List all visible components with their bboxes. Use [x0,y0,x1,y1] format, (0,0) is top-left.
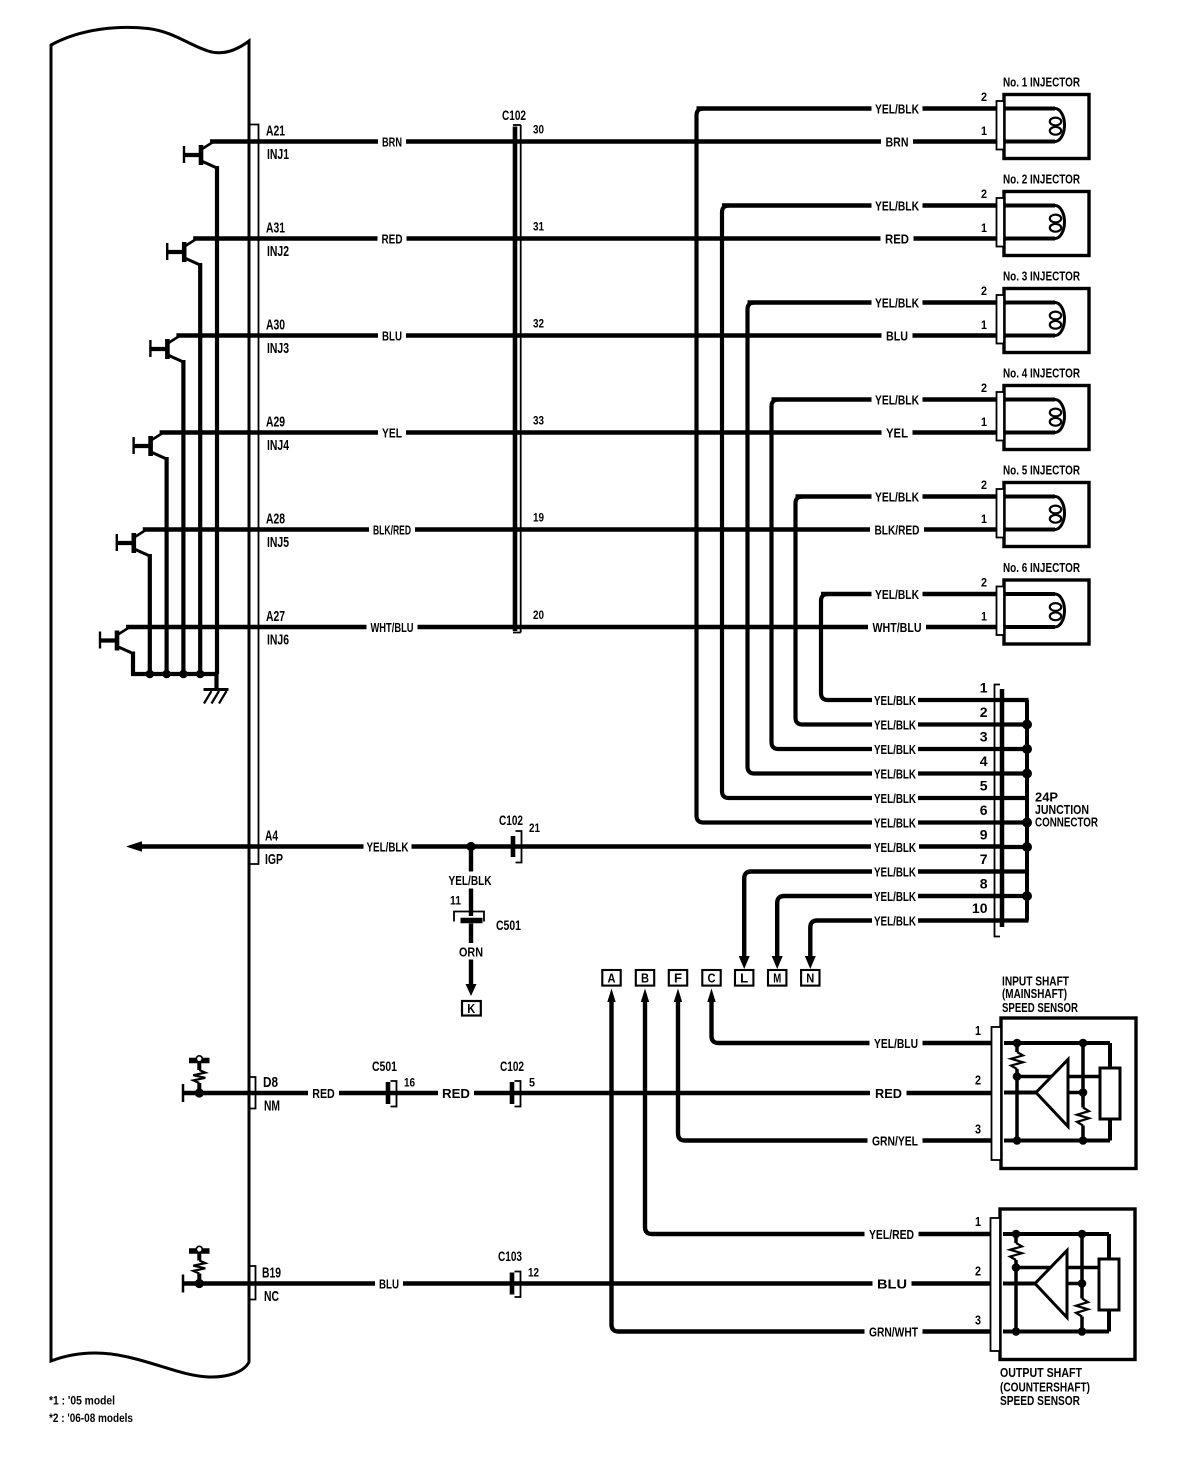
svg-text:N: N [806,971,814,986]
svg-text:A4: A4 [265,827,278,844]
svg-text:BRN: BRN [886,134,909,149]
svg-text:L: L [740,971,748,986]
connector C102 pin 5 [512,1081,521,1107]
terminal K box [462,1001,481,1016]
wire BRN (A21 to No.1 injector pin 1) [210,139,1006,143]
injector No.2 pin numbers [981,187,987,235]
svg-text:YEL/BLK: YEL/BLK [875,198,919,213]
svg-text:GRN/YEL: GRN/YEL [872,1133,918,1148]
svg-text:WHT/BLU: WHT/BLU [371,620,414,635]
pin A4/IGP labels [265,827,283,868]
label C102 / 21 [499,813,540,835]
svg-text:5: 5 [980,778,988,794]
svg-text:D8: D8 [263,1074,278,1091]
wire YEL/BLK vertical bus (injector 2 pin2 to junction row 5) [722,206,872,799]
injector No.1 box [1004,95,1089,159]
svg-text:1: 1 [981,318,987,332]
svg-text:INJ2: INJ2 [267,243,289,260]
svg-text:A27: A27 [266,608,285,625]
svg-text:RED: RED [442,1086,470,1101]
wire YEL/BLK vertical bus (injector 1 pin2 to junction row 6) [697,109,873,823]
pin A28/INJ5 labels [266,510,289,551]
wire YEL/BLK (junction bus to No.2 injector pin 2) [722,203,1006,207]
ECM connector A pin bracket [251,125,259,865]
terminal N box [801,970,819,986]
svg-text:3: 3 [975,1123,981,1137]
svg-text:20: 20 [533,608,544,622]
wire stub tick (NM) [182,1084,185,1102]
svg-text:IGP: IGP [265,851,283,868]
svg-text:RED: RED [312,1086,335,1101]
pin A29/INJ4 labels [266,413,289,454]
svg-text:INJ5: INJ5 [267,534,289,551]
label C102 / 5 [500,1059,535,1090]
output shaft speed sensor box [1000,1209,1135,1360]
injector No.4 box [1004,386,1089,450]
svg-text:RED: RED [875,1086,902,1101]
svg-text:M: M [773,971,781,986]
wire WHT/BLU (A27 to No.6 injector pin 1) [126,625,1006,629]
svg-text:1: 1 [980,680,988,696]
svg-text:1: 1 [981,512,987,526]
svg-text:YEL/BLK: YEL/BLK [875,489,919,504]
pin A31/INJ2 labels [266,219,289,260]
injector No.5 pin bracket [997,489,1005,538]
label 24P JUNCTION CONNECTOR [1035,789,1098,829]
svg-text:F: F [674,971,682,986]
svg-text:INJ4: INJ4 [267,437,289,454]
svg-text:C102: C102 [500,1059,524,1074]
svg-text:YEL/BLK: YEL/BLK [874,864,916,879]
svg-text:2: 2 [980,704,988,720]
svg-text:2: 2 [981,381,987,395]
svg-text:A30: A30 [266,316,285,333]
svg-text:9: 9 [980,827,988,843]
svg-text:A28: A28 [266,510,285,527]
svg-text:YEL: YEL [886,425,908,440]
svg-text:C: C [708,971,717,986]
transistor Q3 (INJ3 driver) [149,336,183,674]
wire YEL/BLK (junction row 8 to terminal M) [772,896,1001,969]
svg-text:*1 : '05 model: *1 : '05 model [49,1393,115,1407]
svg-text:YEL/BLK: YEL/BLK [874,889,916,904]
injector No.4 coil [1005,400,1065,433]
wire YEL/BLK (junction bus to No.5 injector pin 2) [796,494,1007,498]
wire YEL/BLK (junction row 10 to terminal N) [805,921,1001,970]
transistor Q5 (INJ5 driver) [116,530,150,674]
svg-text:No. 2 INJECTOR: No. 2 INJECTOR [1003,171,1080,186]
pin A30/INJ3 labels [266,316,289,357]
output shaft speed sensor internal junction dots [1012,1230,1087,1336]
svg-text:(MAINSHAFT): (MAINSHAFT) [1002,986,1067,1001]
svg-text:YEL/BLK: YEL/BLK [875,101,919,116]
svg-text:NC: NC [264,1288,279,1305]
wire YEL/BLK vertical bus (injector 6 pin2 to junction row 1) [821,594,872,700]
svg-text:YEL/BLK: YEL/BLK [449,873,492,888]
svg-text:K: K [467,1001,476,1016]
svg-text:INJ3: INJ3 [267,340,289,357]
svg-text:YEL/BLK: YEL/BLK [875,587,919,602]
wire BLU (A30 to No.3 injector pin 1) [176,333,1006,337]
svg-text:30: 30 [533,122,544,136]
wire YEL (A29 to No.4 injector pin 1) [160,430,1006,434]
svg-text:3: 3 [980,729,988,745]
svg-text:1: 1 [981,609,987,623]
svg-text:A: A [608,971,617,986]
connector C501 pin 11 [454,912,484,922]
connector C102 pin 21 (IGP) [513,831,522,863]
svg-text:YEL/BLK: YEL/BLK [367,839,409,854]
wire YEL/BLK vertical bus (injector 4 pin2 to junction row 3) [772,400,873,750]
svg-text:No. 3 INJECTOR: No. 3 INJECTOR [1003,268,1080,283]
injector No.6 coil [1005,594,1065,627]
wire GRN/YEL (terminal F to speed sensor) [678,1000,992,1141]
input shaft speed sensor internal circuit [1004,1043,1120,1141]
common emitter bus [131,672,217,676]
pin A27/INJ6 labels [266,608,289,649]
wire YEL/BLK (junction bus to No.1 injector pin 2) [697,106,1007,110]
svg-text:BLU: BLU [382,328,402,343]
24P junction connector bar [1000,689,1005,927]
injector No.2 coil [1005,206,1065,239]
svg-text:6: 6 [980,802,988,818]
svg-text:BLU: BLU [886,328,908,343]
wire ORN (C501 to terminal K) [469,924,473,986]
svg-text:B19: B19 [262,1264,281,1281]
output shaft speed sensor internal circuit [1003,1234,1119,1332]
output shaft speed sensor title [1000,1365,1090,1408]
svg-text:BLK/RED: BLK/RED [373,522,411,537]
arrow into terminal C [707,989,715,1003]
injector No.6 box [1004,580,1089,644]
svg-text:BRN: BRN [382,134,402,149]
pin A21/INJ1 labels [266,122,289,163]
svg-text:GRN/WHT: GRN/WHT [869,1324,918,1339]
input shaft speed sensor pin numbers [975,1024,981,1137]
svg-text:BLU: BLU [379,1276,399,1291]
injector No.6 pin bracket [997,587,1005,636]
svg-text:INJ1: INJ1 [267,146,289,163]
arrow into terminal A [607,989,615,1003]
svg-text:C501: C501 [496,918,521,933]
svg-text:OUTPUT SHAFT: OUTPUT SHAFT [1000,1365,1082,1380]
input shaft speed sensor internal junction dots [1013,1039,1088,1145]
svg-text:1: 1 [981,415,987,429]
svg-text:4: 4 [980,753,988,769]
wire YEL/BLK (branch down to C501 pin 11) [469,849,473,917]
terminal F box [669,970,687,986]
input shaft speed sensor box [1001,1018,1136,1169]
arrow into terminal B [641,989,649,1003]
svg-text:No. 5 INJECTOR: No. 5 INJECTOR [1003,462,1080,477]
svg-text:YEL/BLK: YEL/BLK [874,742,916,757]
svg-text:5: 5 [529,1075,535,1089]
svg-text:10: 10 [972,900,988,916]
svg-text:SPEED SENSOR: SPEED SENSOR [1000,1393,1080,1408]
ground [204,674,229,704]
svg-text:3: 3 [975,1314,981,1328]
junction dot (IGP branch to C501) [466,842,475,851]
injector No.4 pin bracket [997,392,1005,441]
svg-text:32: 32 [533,316,544,330]
connector C102 (main, pins 30-33,19,20) [513,125,521,633]
svg-text:RED: RED [885,231,909,246]
svg-text:2: 2 [981,478,987,492]
terminal A box [602,970,620,986]
svg-text:BLU: BLU [877,1276,907,1291]
svg-text:31: 31 [533,219,544,233]
svg-text:ORN: ORN [459,944,483,959]
svg-text:2: 2 [975,1265,981,1279]
svg-text:33: 33 [533,413,544,427]
ECM/PCM block outline (torn-edge box) [51,27,249,1377]
svg-text:A31: A31 [266,219,285,236]
svg-text:No. 6 INJECTOR: No. 6 INJECTOR [1003,560,1080,575]
svg-text:1: 1 [981,124,987,138]
injector No.3 pin bracket [997,295,1005,344]
svg-text:7: 7 [980,851,988,867]
svg-text:C103: C103 [498,1249,522,1264]
wire BLU (B19/NC to output shaft speed sensor pin 2) [184,1281,992,1285]
svg-text:No. 4 INJECTOR: No. 4 INJECTOR [1003,365,1080,380]
svg-text:YEL: YEL [382,425,402,440]
svg-text:19: 19 [533,510,544,524]
svg-text:CONNECTOR: CONNECTOR [1035,814,1098,829]
24P junction connector comb [1003,700,1029,921]
injector No.3 box [1004,289,1089,353]
internal pull-up resistor (NC) [189,1246,210,1283]
wire YEL/BLK (junction row 7 to terminal L) [739,872,1001,970]
svg-text:8: 8 [980,876,988,892]
wire YEL/BLU (terminal C to speed sensor) [712,1000,993,1043]
connector C103 pin 12 [512,1272,521,1298]
injector No.2 pin bracket [997,198,1005,247]
svg-text:YEL/BLK: YEL/BLK [874,717,916,732]
wire YEL/BLK (junction bus to No.3 injector pin 2) [748,300,1007,304]
svg-text:11: 11 [450,893,461,907]
injector No.2 box [1004,192,1089,256]
svg-text:1: 1 [981,221,987,235]
label C501 / 16 [372,1059,415,1090]
arrow (IGP wire continues) [126,841,142,852]
injector No.1 coil [1005,109,1065,142]
svg-text:YEL/BLK: YEL/BLK [875,295,919,310]
svg-text:YEL/RED: YEL/RED [869,1227,914,1242]
arrow into terminal K [466,984,477,996]
svg-text:YEL/BLK: YEL/BLK [874,815,916,830]
svg-text:YEL/BLK: YEL/BLK [874,791,916,806]
svg-text:*2 : '06-08 models: *2 : '06-08 models [49,1411,133,1425]
wire RED (A31 to No.2 injector pin 1) [193,236,1006,240]
svg-text:A29: A29 [266,413,285,430]
svg-text:NM: NM [264,1097,280,1114]
junction dots on 24P comb [1022,720,1032,902]
svg-text:YEL/BLK: YEL/BLK [874,913,916,928]
wire YEL/RED (terminal B to speed sensor) [645,1000,992,1234]
svg-text:2: 2 [981,90,987,104]
wire YEL/BLK (A4/IGP to junction row 9) [141,844,1001,848]
svg-text:YEL/BLU: YEL/BLU [874,1036,918,1051]
injector No.6 pin numbers [981,575,987,623]
wire YEL/BLK (junction bus to No.4 injector pin 2) [772,397,1007,401]
svg-text:B: B [641,971,649,986]
pin D8/NM labels [263,1074,280,1115]
injector No.4 pin numbers [981,381,987,429]
wire YEL/BLK vertical bus (injector 5 pin2 to junction row 2) [796,497,873,725]
arrow into terminal F [674,989,682,1003]
input shaft speed sensor pin bracket [992,1027,1002,1160]
wire RED (D8/NM to input shaft speed sensor pin 2) [184,1091,993,1095]
transistor Q2 (INJ2 driver) [166,239,200,674]
svg-text:No. 1 INJECTOR: No. 1 INJECTOR [1003,74,1080,89]
svg-text:2: 2 [981,284,987,298]
terminal C box [702,970,720,986]
output shaft speed sensor pin bracket [991,1218,1001,1351]
svg-text:YEL/BLK: YEL/BLK [874,693,916,708]
connector C501 pin 16 [388,1081,397,1107]
wire BLK/RED (A28 to No.5 injector pin 1) [143,527,1006,531]
svg-text:21: 21 [529,821,540,835]
svg-text:YEL/BLK: YEL/BLK [875,392,919,407]
svg-text:A21: A21 [266,122,285,139]
svg-text:BLK/RED: BLK/RED [875,522,920,537]
injector No.3 coil [1005,303,1065,336]
injector No.5 box [1004,483,1089,547]
pin B19/NC labels [262,1264,281,1305]
pin B19/NC bracket [250,1266,256,1300]
svg-text:16: 16 [404,1075,415,1089]
svg-text:INJ6: INJ6 [267,631,289,648]
wire YEL/BLK (junction bus to No.6 injector pin 2) [821,592,1006,596]
24P junction connector bracket [995,685,1001,937]
svg-text:SPEED SENSOR: SPEED SENSOR [1002,1000,1078,1015]
svg-text:1: 1 [975,1215,981,1229]
label C103 / 12 [498,1249,539,1280]
injector No.5 coil [1005,497,1065,530]
svg-text:2: 2 [981,575,987,589]
junction dot (NM pull-up) [195,1088,204,1097]
svg-text:1: 1 [975,1024,981,1038]
injector No.5 pin numbers [981,478,987,526]
wire YEL/BLK vertical bus (injector 3 pin2 to junction row 4) [748,303,873,774]
svg-text:C102: C102 [499,813,523,828]
transistor Q4 (INJ4 driver) [133,433,167,674]
terminal L box [735,970,753,986]
wire GRN/WHT (terminal A to speed sensor) [612,1000,993,1332]
pin D8/NM bracket [250,1077,256,1109]
input shaft speed sensor title [1002,973,1078,1015]
injector No.3 pin numbers [981,284,987,332]
svg-text:2: 2 [975,1074,981,1088]
transistor Q1 (INJ1 driver) [183,142,217,674]
svg-text:WHT/BLU: WHT/BLU [873,620,922,635]
svg-text:C501: C501 [372,1059,397,1074]
junction dots on emitter bus [146,670,205,679]
terminal B box [636,970,654,986]
junction dot (NC pull-up) [195,1279,204,1288]
internal pull-up resistor (NM) [189,1056,210,1093]
svg-text:YEL/BLK: YEL/BLK [874,840,916,855]
injector No.1 pin bracket [997,101,1005,150]
output shaft speed sensor pin numbers [975,1215,981,1328]
injector No.1 pin numbers [981,90,987,138]
svg-text:2: 2 [981,187,987,201]
wire stub tick (NC) [182,1275,185,1293]
svg-text:YEL/BLK: YEL/BLK [874,766,916,781]
transistor Q6 (INJ6 driver) [99,628,133,675]
svg-text:RED: RED [382,231,403,246]
svg-text:C102: C102 [502,108,526,123]
terminal M box [768,970,786,986]
svg-text:12: 12 [528,1265,539,1279]
